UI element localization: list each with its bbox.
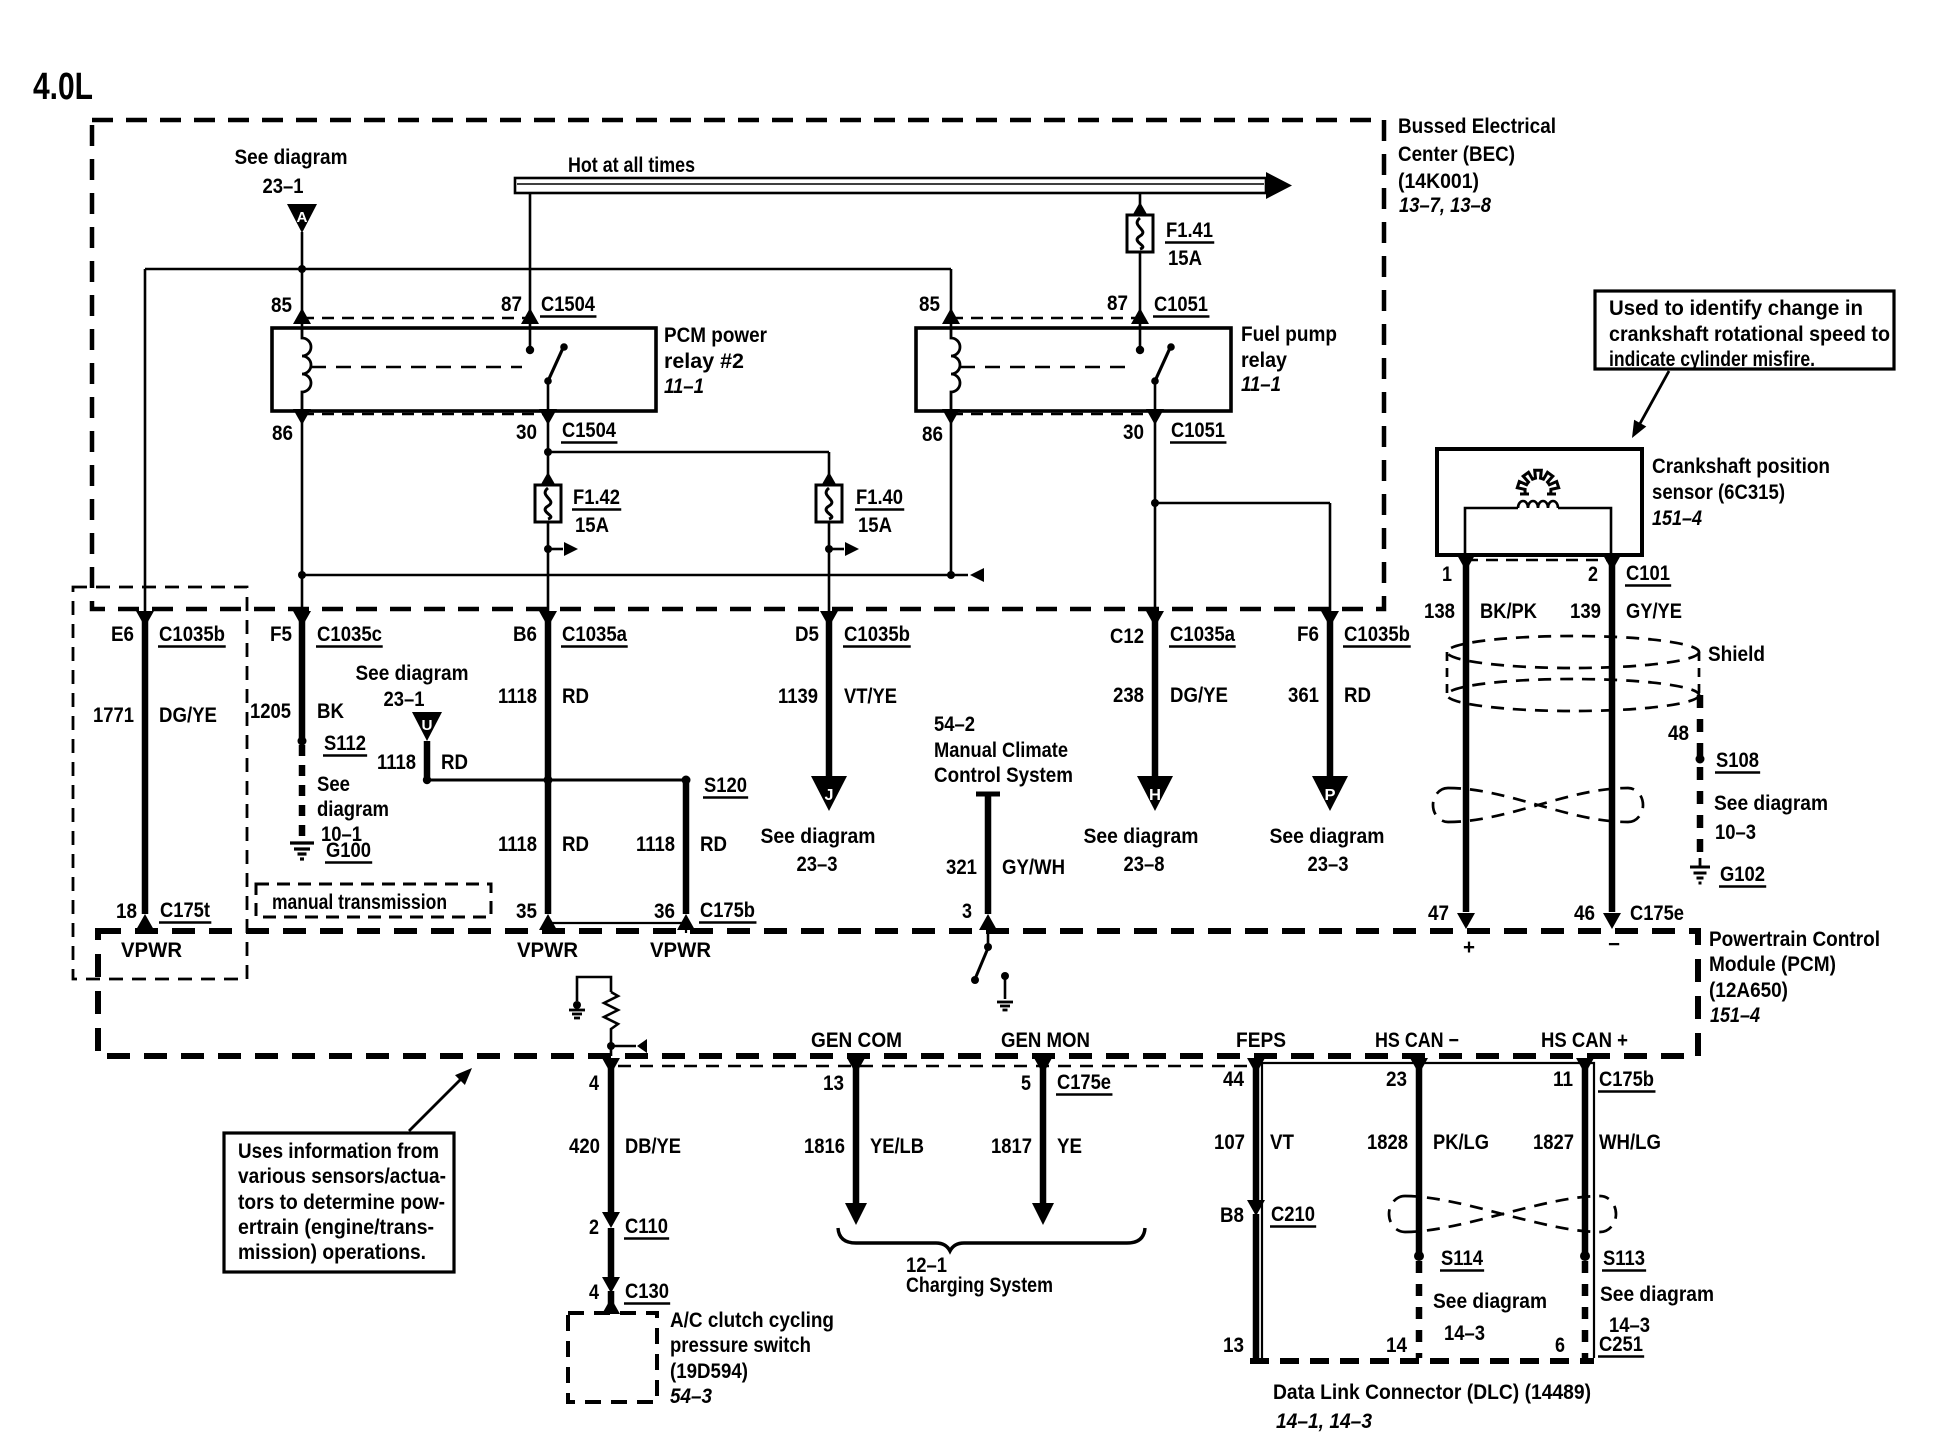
svg-text:C1035b: C1035b bbox=[844, 623, 910, 646]
svg-text:1118: 1118 bbox=[498, 685, 537, 708]
svg-text:J: J bbox=[825, 787, 834, 804]
svg-text:A: A bbox=[297, 209, 308, 226]
svg-text:Bussed Electrical: Bussed Electrical bbox=[1398, 115, 1556, 138]
svg-text:87: 87 bbox=[1107, 292, 1128, 315]
svg-text:86: 86 bbox=[922, 423, 943, 446]
svg-text:RD: RD bbox=[441, 751, 468, 774]
svg-text:321: 321 bbox=[946, 856, 977, 879]
svg-text:1771: 1771 bbox=[93, 704, 134, 727]
svg-text:P: P bbox=[1325, 787, 1336, 804]
svg-text:PCM power: PCM power bbox=[664, 324, 767, 347]
svg-text:C175e: C175e bbox=[1630, 902, 1684, 925]
svg-text:15A: 15A bbox=[1168, 247, 1202, 270]
svg-text:See diagram: See diagram bbox=[1084, 825, 1199, 848]
svg-text:S112: S112 bbox=[324, 732, 366, 755]
svg-text:107: 107 bbox=[1214, 1131, 1245, 1154]
svg-text:48: 48 bbox=[1668, 722, 1689, 745]
svg-text:DB/YE: DB/YE bbox=[625, 1135, 681, 1158]
svg-text:C1035b: C1035b bbox=[159, 623, 225, 646]
svg-text:indicate cylinder misfire.: indicate cylinder misfire. bbox=[1609, 348, 1815, 371]
svg-text:mission) operations.: mission) operations. bbox=[238, 1241, 426, 1264]
svg-text:Uses information from: Uses information from bbox=[238, 1140, 439, 1163]
svg-text:4.0L: 4.0L bbox=[33, 66, 93, 108]
svg-text:RD: RD bbox=[562, 685, 589, 708]
svg-text:GEN COM: GEN COM bbox=[811, 1029, 902, 1052]
svg-text:(19D594): (19D594) bbox=[670, 1360, 748, 1383]
svg-text:YE/LB: YE/LB bbox=[870, 1135, 924, 1158]
svg-text:138: 138 bbox=[1424, 600, 1455, 623]
svg-text:tors to determine pow-: tors to determine pow- bbox=[238, 1191, 445, 1214]
svg-text:G100: G100 bbox=[326, 839, 371, 862]
svg-text:35: 35 bbox=[516, 900, 537, 923]
svg-text:139: 139 bbox=[1570, 600, 1601, 623]
svg-text:C110: C110 bbox=[625, 1215, 668, 1238]
svg-text:PK/LG: PK/LG bbox=[1433, 1131, 1489, 1154]
svg-text:S120: S120 bbox=[704, 774, 747, 797]
svg-text:1828: 1828 bbox=[1367, 1131, 1408, 1154]
svg-text:85: 85 bbox=[919, 293, 940, 316]
svg-text:1118: 1118 bbox=[636, 833, 675, 856]
svg-text:relay: relay bbox=[1241, 349, 1287, 372]
svg-text:DG/YE: DG/YE bbox=[1170, 684, 1228, 707]
svg-text:C130: C130 bbox=[625, 1280, 669, 1303]
svg-text:11: 11 bbox=[1553, 1068, 1573, 1091]
svg-text:C1035c: C1035c bbox=[317, 623, 382, 646]
svg-text:Data Link Connector (DLC) (144: Data Link Connector (DLC) (14489) bbox=[1273, 1381, 1591, 1404]
svg-text:GY/YE: GY/YE bbox=[1626, 600, 1682, 623]
svg-text:BK: BK bbox=[317, 700, 344, 723]
svg-text:44: 44 bbox=[1223, 1068, 1244, 1091]
svg-text:361: 361 bbox=[1288, 684, 1319, 707]
svg-text:11–1: 11–1 bbox=[664, 375, 704, 398]
svg-text:6: 6 bbox=[1555, 1334, 1565, 1357]
svg-text:various sensors/actua-: various sensors/actua- bbox=[238, 1165, 446, 1188]
svg-text:U: U bbox=[422, 717, 433, 734]
svg-text:See diagram: See diagram bbox=[761, 825, 876, 848]
svg-text:pressure switch: pressure switch bbox=[670, 1334, 811, 1357]
svg-text:H: H bbox=[1149, 787, 1161, 804]
svg-text:36: 36 bbox=[654, 900, 675, 923]
svg-text:VPWR: VPWR bbox=[650, 939, 711, 962]
svg-text:See diagram: See diagram bbox=[1270, 825, 1385, 848]
svg-text:F1.40: F1.40 bbox=[856, 486, 903, 509]
svg-text:1827: 1827 bbox=[1533, 1131, 1574, 1154]
svg-text:B8: B8 bbox=[1220, 1204, 1244, 1227]
svg-text:VPWR: VPWR bbox=[121, 939, 182, 962]
svg-text:FEPS: FEPS bbox=[1236, 1029, 1286, 1052]
svg-text:151–4: 151–4 bbox=[1710, 1004, 1760, 1027]
svg-text:See diagram: See diagram bbox=[1433, 1290, 1547, 1313]
svg-text:manual transmission: manual transmission bbox=[272, 891, 447, 914]
svg-text:15A: 15A bbox=[575, 514, 609, 537]
svg-text:G102: G102 bbox=[1720, 863, 1765, 886]
svg-text:C1504: C1504 bbox=[562, 419, 616, 442]
svg-text:23: 23 bbox=[1386, 1068, 1407, 1091]
svg-text:F1.41: F1.41 bbox=[1166, 219, 1213, 242]
svg-text:ertrain (engine/trans-: ertrain (engine/trans- bbox=[238, 1216, 434, 1239]
svg-text:4: 4 bbox=[589, 1072, 599, 1095]
svg-text:Center (BEC): Center (BEC) bbox=[1398, 143, 1515, 166]
svg-text:87: 87 bbox=[501, 293, 522, 316]
svg-text:Module (PCM): Module (PCM) bbox=[1709, 953, 1836, 976]
svg-text:Used to identify change in: Used to identify change in bbox=[1609, 297, 1863, 320]
svg-text:46: 46 bbox=[1574, 902, 1595, 925]
svg-text:B6: B6 bbox=[513, 623, 537, 646]
svg-text:Control System: Control System bbox=[934, 764, 1073, 787]
svg-text:23–1: 23–1 bbox=[263, 175, 304, 198]
svg-text:420: 420 bbox=[569, 1135, 600, 1158]
svg-text:C1035a: C1035a bbox=[562, 623, 627, 646]
svg-text:C175e: C175e bbox=[1057, 1071, 1111, 1094]
svg-text:23–3: 23–3 bbox=[1308, 853, 1349, 876]
svg-text:VT/YE: VT/YE bbox=[844, 685, 897, 708]
svg-text:See diagram: See diagram bbox=[1600, 1283, 1714, 1306]
svg-text:Shield: Shield bbox=[1708, 643, 1765, 666]
svg-text:238: 238 bbox=[1113, 684, 1144, 707]
svg-text:E6: E6 bbox=[111, 623, 134, 646]
svg-text:See diagram: See diagram bbox=[235, 146, 348, 169]
svg-text:See diagram: See diagram bbox=[1714, 792, 1828, 815]
svg-text:VT: VT bbox=[1270, 1131, 1294, 1154]
svg-text:F5: F5 bbox=[270, 623, 292, 646]
svg-text:RD: RD bbox=[700, 833, 727, 856]
svg-text:C175t: C175t bbox=[160, 899, 210, 922]
svg-text:5: 5 bbox=[1021, 1072, 1031, 1095]
svg-text:23–1: 23–1 bbox=[384, 688, 425, 711]
svg-text:C12: C12 bbox=[1110, 625, 1144, 648]
svg-text:BK/PK: BK/PK bbox=[1480, 600, 1537, 623]
svg-text:C101: C101 bbox=[1626, 562, 1670, 585]
svg-text:1: 1 bbox=[1442, 563, 1452, 586]
svg-text:−: − bbox=[1608, 933, 1620, 956]
svg-text:1205: 1205 bbox=[250, 700, 291, 723]
svg-text:47: 47 bbox=[1428, 902, 1449, 925]
svg-text:HS CAN −: HS CAN − bbox=[1375, 1029, 1459, 1052]
svg-text:relay #2: relay #2 bbox=[664, 350, 744, 373]
svg-text:54–3: 54–3 bbox=[670, 1385, 712, 1408]
svg-text:18: 18 bbox=[116, 900, 137, 923]
svg-text:GEN MON: GEN MON bbox=[1001, 1029, 1090, 1052]
svg-text:15A: 15A bbox=[858, 514, 892, 537]
svg-text:See diagram: See diagram bbox=[356, 662, 469, 685]
svg-text:1139: 1139 bbox=[778, 685, 818, 708]
svg-text:1118: 1118 bbox=[498, 833, 537, 856]
svg-text:14: 14 bbox=[1386, 1334, 1407, 1357]
svg-text:crankshaft rotational speed to: crankshaft rotational speed to bbox=[1609, 323, 1890, 346]
svg-text:DG/YE: DG/YE bbox=[159, 704, 217, 727]
svg-text:14–1, 14–3: 14–1, 14–3 bbox=[1276, 1410, 1372, 1433]
svg-text:C175b: C175b bbox=[700, 899, 755, 922]
svg-text:54–2: 54–2 bbox=[934, 713, 975, 736]
svg-text:85: 85 bbox=[271, 294, 292, 317]
svg-text:F6: F6 bbox=[1297, 623, 1319, 646]
svg-text:YE: YE bbox=[1057, 1135, 1082, 1158]
svg-text:23–8: 23–8 bbox=[1124, 853, 1165, 876]
svg-text:diagram: diagram bbox=[317, 798, 389, 821]
svg-text:RD: RD bbox=[1344, 684, 1371, 707]
svg-text:C1035b: C1035b bbox=[1344, 623, 1410, 646]
svg-text:GY/WH: GY/WH bbox=[1002, 856, 1065, 879]
svg-text:+: + bbox=[1463, 936, 1475, 959]
svg-text:11–1: 11–1 bbox=[1241, 373, 1281, 396]
svg-text:(14K001): (14K001) bbox=[1398, 170, 1479, 193]
svg-text:2: 2 bbox=[589, 1216, 599, 1239]
svg-text:1816: 1816 bbox=[804, 1135, 845, 1158]
svg-text:Hot at all times: Hot at all times bbox=[568, 154, 695, 177]
svg-text:sensor (6C315): sensor (6C315) bbox=[1652, 481, 1785, 504]
svg-text:C1051: C1051 bbox=[1154, 293, 1208, 316]
svg-text:3: 3 bbox=[962, 900, 972, 923]
svg-text:HS CAN +: HS CAN + bbox=[1541, 1029, 1628, 1052]
svg-text:Manual Climate: Manual Climate bbox=[934, 739, 1068, 762]
svg-text:86: 86 bbox=[272, 422, 293, 445]
svg-text:13: 13 bbox=[1223, 1334, 1244, 1357]
svg-text:C1504: C1504 bbox=[541, 293, 595, 316]
svg-text:30: 30 bbox=[1123, 421, 1144, 444]
svg-text:1817: 1817 bbox=[991, 1135, 1032, 1158]
svg-text:Fuel pump: Fuel pump bbox=[1241, 323, 1337, 346]
svg-text:Charging System: Charging System bbox=[906, 1274, 1053, 1297]
svg-text:S114: S114 bbox=[1441, 1247, 1483, 1270]
svg-text:151–4: 151–4 bbox=[1652, 507, 1702, 530]
svg-text:13–7, 13–8: 13–7, 13–8 bbox=[1399, 194, 1491, 217]
svg-text:13: 13 bbox=[823, 1072, 844, 1095]
svg-text:F1.42: F1.42 bbox=[573, 486, 620, 509]
svg-text:Powertrain Control: Powertrain Control bbox=[1709, 928, 1880, 951]
svg-text:S108: S108 bbox=[1716, 749, 1759, 772]
svg-text:1118: 1118 bbox=[377, 751, 416, 774]
svg-text:C1035a: C1035a bbox=[1170, 623, 1235, 646]
svg-text:S113: S113 bbox=[1603, 1247, 1645, 1270]
svg-text:D5: D5 bbox=[795, 623, 819, 646]
svg-text:14–3: 14–3 bbox=[1444, 1322, 1485, 1345]
svg-text:WH/LG: WH/LG bbox=[1599, 1131, 1661, 1154]
svg-text:4: 4 bbox=[589, 1281, 599, 1304]
svg-text:See: See bbox=[317, 773, 350, 796]
svg-text:C1051: C1051 bbox=[1171, 419, 1225, 442]
svg-text:C251: C251 bbox=[1599, 1333, 1643, 1356]
svg-text:30: 30 bbox=[516, 421, 537, 444]
svg-text:C175b: C175b bbox=[1599, 1068, 1654, 1091]
svg-text:Crankshaft position: Crankshaft position bbox=[1652, 455, 1830, 478]
svg-text:C210: C210 bbox=[1271, 1203, 1315, 1226]
svg-text:RD: RD bbox=[562, 833, 589, 856]
svg-text:23–3: 23–3 bbox=[797, 853, 838, 876]
svg-text:10–3: 10–3 bbox=[1715, 821, 1756, 844]
svg-text:VPWR: VPWR bbox=[517, 939, 578, 962]
svg-text:(12A650): (12A650) bbox=[1709, 979, 1788, 1002]
svg-text:A/C clutch cycling: A/C clutch cycling bbox=[670, 1309, 834, 1332]
svg-text:2: 2 bbox=[1588, 563, 1598, 586]
